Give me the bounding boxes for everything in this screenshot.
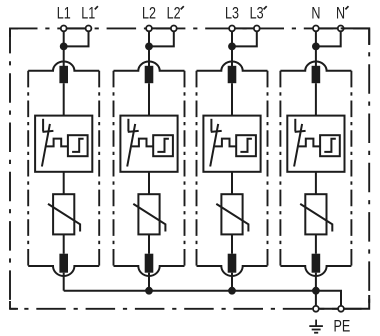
wire L1 terminal down to node <box>63 28 65 46</box>
terminal L1 (circle) <box>61 26 67 32</box>
node L2 (junction dot) <box>145 43 153 51</box>
varistor R-L2 (rectangle) <box>138 194 159 234</box>
wire bottom terminal to PE bus N <box>315 273 317 291</box>
wire terminal block to spark gap L2 <box>148 83 150 115</box>
spark gap slanted electrode N <box>294 124 302 167</box>
junction L3 on PE bus <box>228 287 236 295</box>
svg-text:N: N <box>336 4 345 23</box>
wire node N to top terminal block <box>315 46 317 66</box>
wire PE terminal 2 to boundary corner <box>341 295 369 309</box>
spark gap with trigger circuit F-L3 (box) <box>203 116 260 172</box>
module outline L1 (dash-dot box with bushings) <box>28 62 99 277</box>
svg-text:L1: L1 <box>57 4 71 23</box>
wire varistor to bottom terminal L1 <box>63 234 65 253</box>
wire L3 pair link on boundary <box>232 27 257 29</box>
spark gap slanted electrode L1 <box>42 124 50 167</box>
spark gap electrode (vertical) L1 <box>42 119 44 132</box>
wire varistor to bottom terminal N <box>315 234 317 253</box>
PE bus (horizontal) <box>64 290 316 292</box>
wire varistor to bottom terminal L3 <box>231 234 233 253</box>
trigger pulse line L3 <box>215 139 237 147</box>
trigger step symbol L2 <box>157 139 169 152</box>
spark gap electrode (vertical) N <box>294 119 296 132</box>
node L3 (junction dot) <box>228 43 236 51</box>
wire L1′ terminal down and over to node <box>64 28 89 46</box>
trigger circuit box N <box>320 135 340 156</box>
wire link between PE terminals on boundary <box>316 308 341 310</box>
wire spark gap to varistor L3 <box>231 172 233 194</box>
wire node L2 to top terminal block <box>148 46 150 66</box>
bottom terminal block L2 <box>145 254 154 273</box>
wire bus to PE terminal 1 <box>315 291 317 309</box>
wire bottom terminal to PE bus L3 <box>231 273 233 291</box>
wire N terminal down to node <box>315 28 317 46</box>
svg-text:PE: PE <box>334 317 351 336</box>
spark gap with trigger circuit F-L2 (box) <box>120 116 177 172</box>
top terminal block L3 (thermal disconnector) <box>228 66 237 83</box>
trigger circuit box L3 <box>236 135 256 156</box>
spark gap slanted electrode L3 <box>210 124 218 167</box>
svg-text:L3: L3 <box>225 4 239 23</box>
prime mark of label L1′ <box>95 6 98 9</box>
svg-text:L1: L1 <box>81 4 95 23</box>
trigger step symbol N <box>324 139 336 152</box>
top terminal block N (thermal disconnector) <box>312 66 321 83</box>
spark gap electrode tick L3 <box>211 131 222 132</box>
spark gap with trigger circuit F-N (box) <box>287 116 344 172</box>
top terminal block L1 (thermal disconnector) <box>59 66 68 83</box>
junction N on PE bus <box>312 287 320 295</box>
terminal L2′ (circle) <box>171 26 177 32</box>
varistor diagonal stroke L2 <box>133 204 165 232</box>
enclosure boundary (dash-dot outline) <box>10 28 369 308</box>
node L1 (junction dot) <box>60 43 68 51</box>
terminal N (circle) <box>313 26 319 32</box>
svg-text:L3: L3 <box>250 4 264 23</box>
terminal N′ (circle) <box>338 26 344 32</box>
wire spark gap to varistor N <box>315 172 317 194</box>
wire terminal block to spark gap L1 <box>63 83 65 115</box>
wire L2 terminal down to node <box>148 28 150 46</box>
wire spark gap to varistor L1 <box>63 172 65 194</box>
PE terminal 1 (circle) <box>313 306 319 312</box>
wire node L3 to top terminal block <box>231 46 233 66</box>
spark gap electrode tick L2 <box>128 131 139 132</box>
prime mark of label L3′ <box>264 6 267 9</box>
module outline L2 (dash-dot box with bushings) <box>114 62 185 277</box>
spark gap slanted electrode L2 <box>127 124 135 167</box>
svg-text:L2: L2 <box>167 4 181 23</box>
node N (junction dot) <box>312 43 320 51</box>
wire varistor to bottom terminal L2 <box>148 234 150 253</box>
wire N-prime terminal to boundary corner <box>341 28 370 45</box>
trigger step symbol L1 <box>72 139 84 152</box>
spark gap electrode (vertical) L2 <box>127 119 129 132</box>
junction L2 on PE bus <box>145 287 153 295</box>
varistor diagonal stroke N <box>300 204 332 232</box>
svg-text:L2: L2 <box>142 4 156 23</box>
trigger pulse line L1 <box>46 139 68 147</box>
spark gap electrode tick N <box>295 131 306 132</box>
terminal L3′ (circle) <box>254 26 260 32</box>
trigger pulse line L2 <box>132 139 154 147</box>
bottom terminal block L1 <box>59 254 68 273</box>
varistor diagonal stroke L3 <box>216 204 248 232</box>
wire node L1 to top terminal block <box>63 46 65 66</box>
terminal L1′ (circle) <box>86 26 92 32</box>
wire terminal block to spark gap L3 <box>231 83 233 115</box>
wire L2 pair link on boundary <box>149 27 174 29</box>
wire spark gap to varistor L2 <box>148 172 150 194</box>
svg-text:N: N <box>311 4 320 23</box>
terminal L3 (circle) <box>229 26 235 32</box>
spark gap electrode (vertical) L3 <box>210 119 212 132</box>
wire bus to PE terminal 2 <box>316 291 341 309</box>
enclosure corner solid pieces <box>10 28 18 308</box>
wire N′ terminal down and over to node <box>316 28 341 46</box>
varistor R-L1 (rectangle) <box>53 194 74 234</box>
PE terminal 2 (circle) <box>338 306 344 312</box>
trigger circuit box L1 <box>68 135 88 156</box>
module outline N (dash-dot box with bushings) <box>280 62 351 277</box>
ground symbol (earth) <box>309 320 323 333</box>
top terminal block L2 (thermal disconnector) <box>145 66 154 83</box>
wire L2′ terminal down and over to node <box>149 28 174 46</box>
bottom terminal block L3 <box>228 254 237 273</box>
terminal L2 (circle) <box>146 26 152 32</box>
wire L3′ terminal down and over to node <box>232 28 257 46</box>
wire N pair link on boundary <box>316 27 341 29</box>
trigger pulse line N <box>299 139 321 147</box>
prime mark of label N′ <box>345 6 348 9</box>
module outline L3 (dash-dot box with bushings) <box>197 62 268 277</box>
prime mark of label L2′ <box>181 6 184 9</box>
varistor R-N (rectangle) <box>305 194 326 234</box>
varistor diagonal stroke L1 <box>48 204 80 232</box>
wire bottom terminal to PE bus L2 <box>148 273 150 291</box>
wire L3 terminal down to node <box>231 28 233 46</box>
wire terminal block to spark gap N <box>315 83 317 115</box>
spark gap electrode tick L1 <box>43 131 54 132</box>
trigger step symbol L3 <box>240 139 252 152</box>
spark gap with trigger circuit F-L1 (box) <box>35 116 92 172</box>
varistor R-L3 (rectangle) <box>221 194 242 234</box>
wire bottom terminal to PE bus L1 <box>63 273 65 291</box>
wire L1 pair link on boundary <box>64 27 89 29</box>
trigger circuit box L2 <box>153 135 173 156</box>
bottom terminal block N <box>312 254 321 273</box>
